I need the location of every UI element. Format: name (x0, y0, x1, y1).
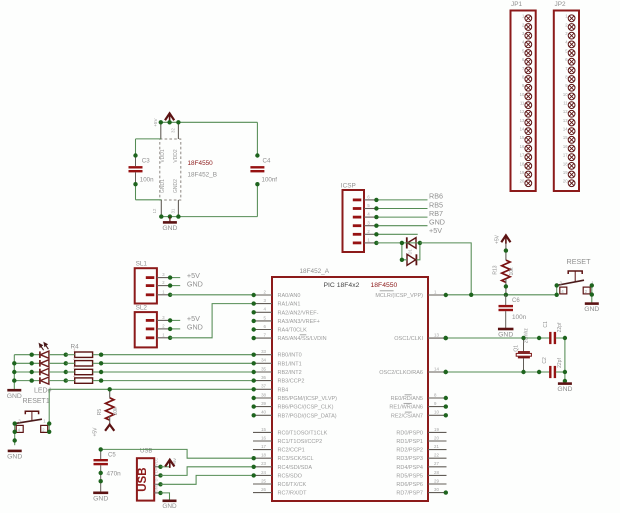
pin 16 RC1/T1OSI/CCP2 (253, 435, 322, 445)
svg-text:16: 16 (520, 144, 525, 149)
pin 24 RC5/SDO (252, 470, 303, 480)
svg-text:20: 20 (520, 179, 525, 184)
connector USB (137, 449, 161, 501)
svg-text:R5: R5 (97, 409, 103, 416)
connector ICSP (341, 182, 377, 252)
svg-text:RD0/PSP0: RD0/PSP0 (396, 430, 423, 436)
wire LED cathode bus (13, 355, 15, 390)
wire ICSP net RB5 (376, 208, 427, 210)
wire ICSP net +5V (376, 233, 417, 235)
svg-text:RB7/PGD/(ICSP_DATA): RB7/PGD/(ICSP_DATA) (278, 413, 337, 419)
header JP2 (554, 1, 579, 191)
svg-text:ICSP: ICSP (341, 182, 356, 189)
pin 22 RD3/PSP3 (396, 453, 446, 463)
svg-text:+5V: +5V (429, 226, 442, 235)
resistor R13 10k (493, 243, 515, 295)
svg-text:470n: 470n (107, 471, 122, 478)
pin 13 OSC1/CLKI (394, 333, 448, 343)
wire (66, 362, 75, 364)
pin 14 OSC2/CLKO/RA6 (379, 366, 448, 376)
wire (49, 354, 66, 356)
overline MCLR (380, 290, 394, 292)
svg-text:VCC: VCC (155, 458, 159, 466)
LED 2 (40, 360, 49, 367)
svg-text:GND: GND (584, 306, 599, 313)
svg-text:14: 14 (563, 127, 568, 132)
svg-text:20: 20 (434, 435, 439, 440)
svg-text:35: 35 (261, 366, 266, 371)
ground symbol GND (C5) (93, 493, 108, 503)
svg-text:19: 19 (563, 170, 568, 175)
svg-text:13: 13 (520, 118, 525, 123)
pin VDD1 (11) (160, 122, 162, 139)
capacitor C5 470n (94, 449, 122, 492)
wire (49, 362, 66, 364)
svg-text:100nf: 100nf (262, 176, 278, 183)
svg-text:RESET: RESET (567, 257, 592, 266)
svg-text:+5V: +5V (92, 427, 98, 437)
wire RESET1 right to RB4 net (48, 389, 50, 432)
connector SL1 (135, 260, 170, 303)
capacitor C3 (129, 156, 155, 185)
wire R4 to port B (101, 380, 253, 382)
svg-text:29: 29 (434, 478, 439, 483)
svg-text:11: 11 (520, 101, 525, 106)
pin 8 RE0/RD/AN5 (391, 392, 448, 402)
junctions RESET1 (13, 421, 52, 442)
wire (14, 380, 40, 382)
junctions R4 right (99, 353, 103, 383)
wire (93, 362, 102, 364)
pin GND1 (12) (160, 200, 162, 217)
svg-text:13: 13 (563, 118, 568, 123)
junctions LED bus (12, 361, 16, 383)
svg-text:RC1/T1OSI/CCP2: RC1/T1OSI/CCP2 (278, 439, 323, 445)
svg-text:20: 20 (563, 179, 568, 184)
LED emission arrows (39, 343, 48, 351)
junctions C5 (99, 447, 103, 483)
svg-text:10: 10 (563, 92, 568, 97)
pin 34 RB1/INT1 (252, 358, 302, 368)
svg-text:RD5/PSP5: RD5/PSP5 (396, 473, 423, 479)
wire (93, 354, 102, 356)
svg-text:RB6/PGC/(ICSP_CLK): RB6/PGC/(ICSP_CLK) (278, 405, 334, 411)
junctions supply rails (159, 120, 181, 219)
junctions SL2 pin ends (168, 318, 172, 340)
wire R4 to port B (101, 362, 253, 364)
wire (66, 354, 75, 356)
svg-text:10k: 10k (509, 267, 515, 276)
svg-text:+5V: +5V (187, 314, 200, 323)
svg-text:20mhz: 20mhz (524, 328, 530, 344)
svg-text:C6: C6 (512, 298, 520, 304)
wire GND bottom rail (161, 216, 257, 218)
pin 10 RE2/CS/AN7 (391, 410, 448, 420)
wire +5V top rail (161, 121, 258, 123)
svg-text:RC0/T1OSO/T1CLK: RC0/T1OSO/T1CLK (278, 430, 328, 436)
svg-text:RE0/RD/AN5: RE0/RD/AN5 (391, 396, 423, 402)
pin 36 RB3/CCP2 (252, 375, 305, 385)
svg-text:RB1/INT1: RB1/INT1 (278, 361, 302, 367)
svg-text:GND: GND (93, 495, 108, 502)
wire RB4 net (49, 388, 253, 390)
svg-text:OSC1/CLKI: OSC1/CLKI (394, 336, 423, 342)
svg-text:C1: C1 (543, 321, 549, 328)
svg-text:19: 19 (520, 170, 525, 175)
svg-text:GND: GND (162, 225, 177, 232)
wire USB VCC (161, 466, 170, 468)
wire C3 lower (135, 184, 137, 200)
wire D1 lower-left link (402, 243, 407, 260)
svg-text:VDD2: VDD2 (173, 149, 179, 163)
svg-text:+5V: +5V (173, 458, 177, 465)
svg-text:D1: D1 (408, 248, 413, 254)
svg-text:RA2/AN2/VREF-: RA2/AN2/VREF- (278, 310, 319, 316)
pin 37 RB4 (252, 384, 289, 394)
capacitor C4 (250, 158, 277, 184)
junctions USB pin ends (158, 465, 162, 496)
svg-text:OSC2/CLKO/RA6: OSC2/CLKO/RA6 (379, 370, 423, 376)
pin 4 RA2/AN2/VREF- (252, 307, 319, 317)
pin 35 RB2/INT2 (252, 366, 302, 376)
overline RD (RE0) (405, 394, 412, 396)
svg-text:RA5/AN4/SS/LVDIN: RA5/AN4/SS/LVDIN (278, 336, 327, 342)
svg-text:33: 33 (261, 349, 266, 354)
resistor array R4 (71, 344, 93, 384)
svg-text:23: 23 (261, 461, 266, 466)
wire VUSB net to RC3 pin18 (101, 449, 253, 458)
svg-text:RA0/AN0: RA0/AN0 (278, 293, 301, 299)
ground symbol GND (LED bus) (7, 390, 22, 400)
svg-text:18F452_A: 18F452_A (300, 268, 330, 275)
junctions C4 (255, 153, 259, 186)
svg-text:GND: GND (7, 393, 22, 400)
svg-text:RC6/TX/CK: RC6/TX/CK (278, 482, 307, 488)
ground symbol GND (USB) (162, 501, 177, 510)
wire (14, 362, 40, 364)
junctions RESET (555, 283, 595, 297)
+5V supply symbol (below R5, inverted) (92, 424, 114, 437)
svg-text:RA3/AN3/VREF+: RA3/AN3/VREF+ (278, 319, 320, 325)
svg-text:17: 17 (261, 444, 266, 449)
switch RESET1 (15, 398, 50, 433)
capacitor C6 100n (499, 295, 527, 329)
ground symbol GND (crystal caps) (557, 384, 572, 394)
pin 33 RB0/INT0 (252, 349, 302, 359)
svg-text:28: 28 (434, 470, 439, 475)
crystal Q1 20mhz (513, 328, 531, 372)
IC U1 PIC 18F4x2 18F4550 (272, 277, 428, 501)
diode D1 (anti-parallel pair) (407, 237, 417, 265)
pin 21 RD2/PSP2 (396, 444, 446, 454)
svg-text:18: 18 (261, 453, 266, 458)
svg-text:24: 24 (261, 470, 266, 475)
ground symbol GND (supply block) (162, 222, 177, 232)
ground symbol GND (RESET1) (7, 451, 22, 461)
wire ICSP net RB6 (376, 199, 427, 201)
pin 40 RB7/PGD/(ICSP_DATA) (252, 410, 337, 420)
pin 39 RB6/PGC/(ICSP_CLK) (252, 401, 334, 411)
pin 6 RA4/T0CLK (252, 324, 308, 334)
svg-text:17: 17 (520, 153, 525, 158)
overline SS (RA5) (300, 334, 307, 336)
svg-text:RD1/PSP1: RD1/PSP1 (396, 439, 423, 445)
svg-text:RD2/PSP2: RD2/PSP2 (396, 448, 423, 454)
wire R4 to port B (101, 354, 253, 356)
capacitor C1 22pf (543, 321, 563, 344)
svg-text:18F4550: 18F4550 (188, 160, 214, 167)
svg-text:RB0/INT0: RB0/INT0 (278, 353, 302, 359)
junctions R13 / MCLR (469, 248, 508, 297)
pin 28 RD5/PSP5 (396, 470, 446, 480)
wire C4 lower (256, 184, 258, 216)
pin 9 RE1/WR/AN6 (389, 401, 448, 411)
svg-text:GND: GND (187, 323, 203, 332)
wire USB D+ to RC4 (161, 467, 254, 476)
wire SL1 GND stub (170, 285, 180, 287)
svg-text:GND: GND (155, 483, 159, 492)
svg-text:3: 3 (73, 366, 75, 370)
svg-text:MCLR/(ICSP_VPP): MCLR/(ICSP_VPP) (375, 293, 423, 299)
svg-text:JP2: JP2 (555, 1, 566, 8)
svg-text:VDD1: VDD1 (160, 149, 166, 163)
svg-text:10: 10 (520, 92, 525, 97)
pin GND2 (31) (177, 200, 179, 217)
LED 1 (40, 351, 49, 358)
junctions oscillator (443, 336, 567, 383)
wire (49, 380, 66, 382)
supply part 18F452_B dashed box (160, 139, 181, 200)
svg-text:34: 34 (261, 358, 266, 363)
svg-text:11: 11 (563, 101, 568, 106)
svg-text:RB2/INT2: RB2/INT2 (278, 370, 302, 376)
LED 3 (40, 368, 49, 375)
pin 18 RC3/SCK/SCL (252, 453, 314, 463)
overline WR (RE1) (404, 402, 412, 404)
svg-text:D+: D+ (155, 467, 159, 473)
svg-text:GND: GND (557, 386, 572, 393)
resistor R5 10k (97, 389, 119, 424)
wire ICSP net GND (376, 225, 427, 227)
wire C1/C2 to GND (556, 338, 565, 383)
svg-text:RB4: RB4 (278, 387, 289, 393)
svg-text:16: 16 (563, 144, 568, 149)
svg-text:19: 19 (434, 427, 439, 432)
svg-text:RD7/PSP7: RD7/PSP7 (396, 491, 423, 497)
svg-text:C4: C4 (263, 158, 271, 165)
svg-text:RD4/PSP4: RD4/PSP4 (396, 465, 423, 471)
svg-text:RD6/PSP6: RD6/PSP6 (396, 482, 423, 488)
pin 26 RC7/RX/DT (253, 487, 307, 497)
wire SL2 GND stub (170, 328, 180, 330)
svg-text:12: 12 (520, 109, 525, 114)
wire C4 upper (256, 122, 258, 155)
wire D1 to MCLR net (420, 243, 471, 295)
svg-text:Q1: Q1 (513, 345, 519, 352)
overline CS (RE2) (405, 411, 412, 413)
svg-text:18F452_B: 18F452_B (188, 172, 218, 179)
wire RESET right to GND (591, 285, 593, 303)
ground symbol GND (C6) (498, 329, 514, 339)
LED 4 (40, 377, 49, 384)
svg-text:GND: GND (7, 454, 22, 461)
svg-text:C5: C5 (108, 453, 116, 459)
svg-text:RA1/AN1: RA1/AN1 (278, 302, 301, 308)
wire R4 to port B (101, 371, 253, 373)
svg-text:RB3/CCP2: RB3/CCP2 (278, 379, 305, 385)
pin 3 RA1/AN1 (252, 298, 301, 308)
svg-text:32: 32 (171, 128, 176, 133)
svg-text:RC2/CCP1: RC2/CCP1 (278, 448, 305, 454)
wire ICSP net RB7 (376, 216, 427, 218)
svg-text:40: 40 (261, 410, 266, 415)
svg-text:25: 25 (261, 478, 266, 483)
svg-text:13: 13 (434, 333, 439, 338)
header JP1 (511, 1, 536, 191)
svg-text:2: 2 (73, 357, 75, 361)
svg-text:USB: USB (137, 467, 149, 491)
svg-text:RESET1: RESET1 (23, 398, 50, 405)
svg-text:C2: C2 (542, 357, 548, 364)
svg-text:RE1/WR/AN6: RE1/WR/AN6 (389, 405, 423, 411)
wire SL1 +5V stub (170, 277, 180, 279)
svg-text:17: 17 (563, 153, 568, 158)
wire SL1 pin1 to RA0 (170, 294, 253, 296)
svg-text:21: 21 (434, 444, 439, 449)
svg-text:100n: 100n (140, 176, 154, 183)
svg-text:JP1: JP1 (511, 1, 522, 8)
svg-text:18F4550: 18F4550 (371, 282, 398, 289)
svg-text:R13: R13 (493, 265, 499, 274)
+5V supply symbol (top of supply block) (165, 113, 174, 121)
wire D1 lower-right link (416, 243, 420, 260)
wire through D1 (402, 242, 420, 244)
svg-text:4: 4 (73, 375, 75, 379)
junctions ICSP pin ends (374, 198, 378, 245)
svg-text:22: 22 (434, 453, 439, 458)
svg-text:39: 39 (261, 401, 266, 406)
junctions LED anodes (64, 353, 68, 383)
junction R5 top (108, 387, 112, 391)
svg-text:RA4/T0CLK: RA4/T0CLK (278, 328, 308, 334)
svg-text:RC5/SDO: RC5/SDO (278, 473, 303, 479)
svg-text:12: 12 (152, 208, 157, 213)
svg-text:22pf: 22pf (557, 358, 563, 368)
pin 17 RC2/CCP1 (253, 444, 305, 454)
wire (66, 380, 75, 382)
svg-text:36: 36 (261, 375, 266, 380)
pin 27 RD4/PSP4 (396, 461, 446, 471)
svg-text:15: 15 (563, 135, 568, 140)
svg-text:C3: C3 (142, 158, 150, 165)
wire to C3 bottom (136, 199, 162, 201)
svg-text:12: 12 (563, 109, 568, 114)
svg-text:+5V: +5V (494, 234, 500, 244)
svg-text:RC3/SCK/SCL: RC3/SCK/SCL (278, 456, 314, 462)
+5V supply symbol (USB VCC) (165, 458, 177, 468)
svg-text:15: 15 (520, 135, 525, 140)
svg-text:18: 18 (520, 161, 525, 166)
pin 29 RD6/PSP6 (396, 478, 446, 488)
svg-text:RC4/SDI/SDA: RC4/SDI/SDA (278, 465, 313, 471)
wire RESET1 left to GND (14, 424, 16, 446)
pin 7 RA5/AN4/SS/LVDIN (252, 333, 327, 343)
wire (14, 354, 40, 356)
ground (supply block) (169, 217, 171, 222)
svg-text:GND: GND (187, 279, 203, 288)
pin 38 RB5/PGM/(ICSP_VLVP) (252, 392, 338, 402)
svg-text:RC7/RX/DT: RC7/RX/DT (278, 491, 308, 497)
pin 25 RC6/TX/CK (253, 478, 307, 488)
pin 30 RD7/PSP7 (396, 487, 448, 497)
+5V supply symbol (R13 pull-up) (494, 234, 510, 244)
wire RESET left terminals (556, 285, 558, 294)
svg-text:GND2: GND2 (173, 179, 179, 193)
wire to C3 top (136, 138, 161, 140)
pin 23 RC4/SDI/SDA (252, 461, 313, 471)
svg-text:100n: 100n (512, 314, 527, 321)
wire (93, 371, 102, 373)
svg-text:GND: GND (162, 503, 177, 510)
svg-text:38: 38 (261, 392, 266, 397)
junctions D1 (400, 241, 422, 262)
wire OSC1 net (447, 337, 551, 339)
junctions C3 (133, 153, 137, 186)
svg-text:30: 30 (434, 487, 439, 492)
pin 1 MCLR/(ICSP_VPP) (375, 289, 448, 299)
junctions LED cathodes (30, 353, 34, 383)
svg-text:RB5/PGM/(ICSP_VLVP): RB5/PGM/(ICSP_VLVP) (278, 396, 338, 402)
wire SL2 pin1 to RA1 (170, 304, 253, 338)
svg-text:SL2: SL2 (136, 304, 148, 311)
svg-text:PIC 18F4x2: PIC 18F4x2 (324, 282, 360, 289)
switch RESET (557, 257, 595, 294)
wire (93, 380, 102, 382)
svg-text:14: 14 (434, 366, 439, 371)
wire USB D- to RC5 (161, 475, 254, 484)
wire ICSP pin1 to D1 (376, 242, 402, 244)
svg-text:SL1: SL1 (136, 260, 148, 267)
pin 15 RC0/T1OSO/T1CLK (253, 427, 328, 437)
wire SL2 +5V stub (170, 319, 180, 321)
pin 5 RA3/AN3/VREF+ (252, 315, 320, 325)
svg-text:22pf: 22pf (557, 322, 563, 332)
svg-text:10: 10 (434, 410, 439, 415)
svg-text:RE2/CS/AN7: RE2/CS/AN7 (391, 413, 423, 419)
pin 2 RA0/AN0 (252, 289, 301, 299)
svg-text:26: 26 (261, 487, 266, 492)
svg-text:+5V: +5V (153, 118, 158, 127)
wire C2 right (556, 371, 565, 373)
pin 20 RD1/PSP1 (396, 435, 446, 445)
capacitor C2 22pf (542, 357, 563, 378)
svg-text:14: 14 (520, 127, 525, 132)
wire (49, 371, 66, 373)
svg-text:GND1: GND1 (160, 179, 166, 193)
connector SL2 (135, 304, 170, 347)
wire MCLR net (447, 294, 557, 296)
wire USB GND (161, 493, 170, 500)
pin VDD2 (32) (177, 122, 179, 139)
svg-text:RD3/PSP3: RD3/PSP3 (396, 456, 423, 462)
pin 19 RD0/PSP0 (396, 427, 446, 437)
svg-text:15: 15 (261, 427, 266, 432)
svg-text:16: 16 (261, 435, 266, 440)
wire C3 upper (135, 139, 137, 156)
svg-text:1: 1 (73, 349, 75, 353)
svg-text:27: 27 (434, 461, 439, 466)
svg-text:18: 18 (563, 161, 568, 166)
